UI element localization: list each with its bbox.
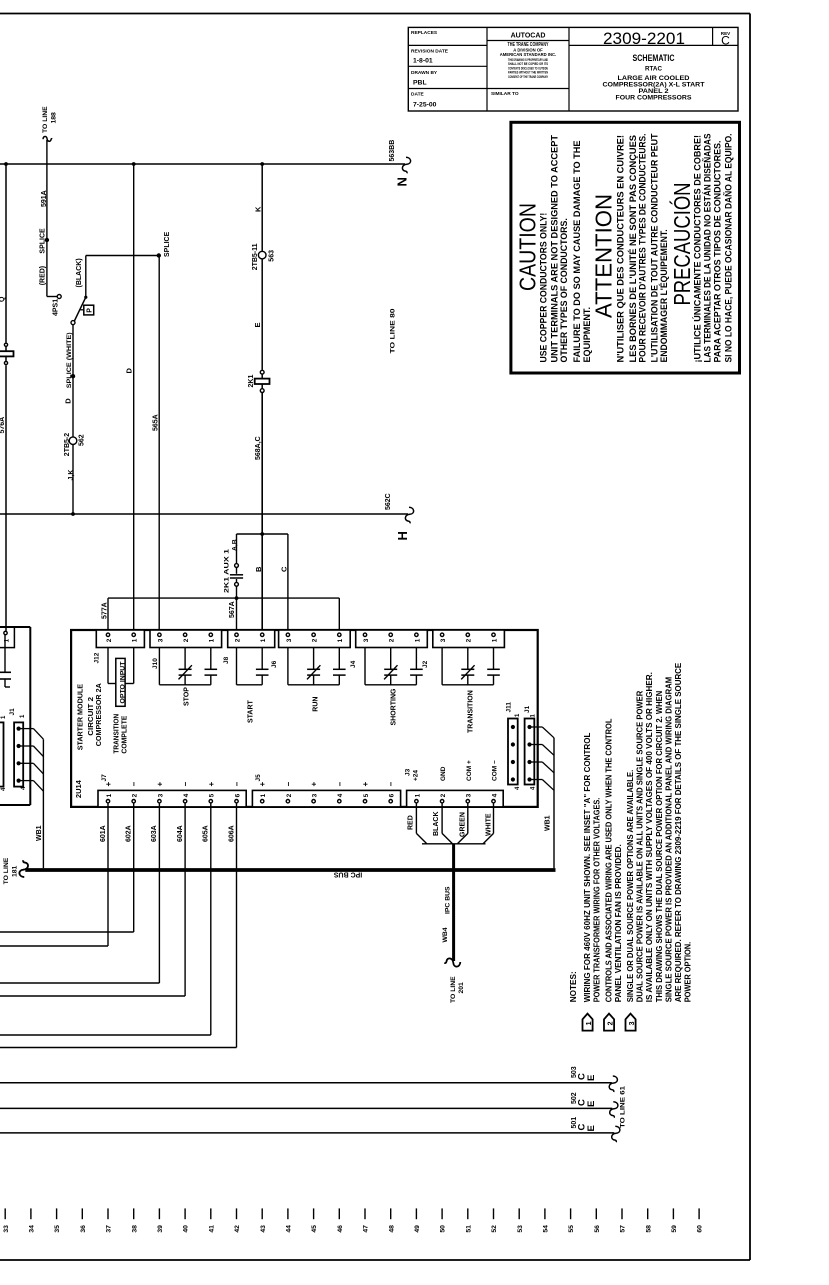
label 4 (J1 left) [21,786,27,790]
wire 568A,C / B [261,393,263,634]
svg-text:565A: 565A [153,414,160,431]
connector J11 box [508,719,518,785]
svg-text:1: 1 [491,638,498,642]
svg-text:34: 34 [29,1225,36,1233]
svg-text:3: 3 [629,1021,636,1025]
connector J1 box (right) [525,719,535,785]
wire [5,346,7,351]
coil 2K1 body [255,379,270,384]
svg-text:K: K [254,206,263,212]
svg-text:ATTENTION: ATTENTION [591,194,617,318]
wire 606A [0,803,237,1048]
IPC BUS [25,868,555,872]
svg-text:567A: 567A [229,601,236,618]
label 601A [100,825,107,842]
wire to line 188 stub [46,140,48,164]
label WB4 [442,927,449,942]
svg-text:WB1: WB1 [36,825,43,841]
svg-text:39: 39 [157,1225,164,1233]
svg-text:TO LINE: TO LINE [3,857,10,884]
svg-text:50: 50 [440,1225,447,1233]
svg-text:PARA ACEPTAR OTROS TIPOS DE CO: PARA ACEPTAR OTROS TIPOS DE CONDUCTORES. [713,141,724,363]
svg-text:RTAC: RTAC [645,66,662,73]
label 576A [0,417,6,434]
svg-text:43: 43 [260,1225,267,1233]
contact group START (J8) [237,648,269,685]
svg-text:58: 58 [645,1225,652,1233]
coil Q body [0,351,14,356]
wire E [261,259,263,370]
coil Q bottom terminal [4,361,7,364]
svg-text:CONSENT OF THE TRANE COMPANY: CONSENT OF THE TRANE COMPANY [508,74,548,79]
svg-text:−: − [181,782,190,787]
svg-text:H: H [395,531,410,540]
svg-text:562: 562 [79,434,86,446]
terminal 2TB5-2 [69,437,77,445]
capacitor in left module [0,635,11,687]
connector pins J11 J1 [511,725,532,782]
svg-text:48: 48 [388,1225,395,1233]
label 501 [571,1117,578,1129]
svg-text:E: E [253,322,262,327]
label 1 (J1 left) [20,714,26,718]
svg-text:SPLICE (WHITE): SPLICE (WHITE) [66,332,73,388]
svg-text:605A: 605A [203,825,210,842]
svg-text:B: B [254,566,263,572]
label C (501) [577,1124,588,1131]
top connector pins [106,633,499,642]
splice dot red [45,238,49,242]
svg-text:REVISION DATE: REVISION DATE [411,48,449,54]
connector J6 box [279,630,351,648]
svg-text:Q: Q [0,296,6,302]
label RUN [313,697,320,712]
node B-AUX junction [260,532,264,536]
svg-text:J3: J3 [405,768,412,776]
label 567A [229,601,236,618]
svg-text:1: 1 [260,793,267,797]
label 602A [126,825,133,842]
wire 565A [158,256,160,634]
label TO LINE 61 [620,1086,627,1128]
svg-text:3: 3 [466,793,473,797]
svg-text:601A: 601A [100,825,107,842]
svg-text:WB1: WB1 [545,815,552,831]
label J5 [255,774,262,782]
label 1 (terminal) [3,639,10,643]
svg-text:201: 201 [458,982,465,994]
svg-text:ENDOMMAGER L'ÉQUIPEMENT.: ENDOMMAGER L'ÉQUIPEMENT. [659,229,670,362]
terminal 1 circle [4,631,7,634]
svg-text:COMPRESSOR 2A: COMPRESSOR 2A [94,683,103,747]
svg-text:2TB5-2: 2TB5-2 [64,433,71,456]
wire 591A [47,164,57,297]
node top rail left [4,162,8,166]
svg-text:TO LINE: TO LINE [450,976,457,1003]
connector J4 box [356,630,428,648]
svg-text:WHITE: WHITE [486,813,493,836]
svg-text:TRANSITION: TRANSITION [468,690,475,733]
label 2TB5-11 [252,243,259,270]
svg-text:38: 38 [131,1225,138,1233]
label J,K [68,470,75,481]
wire [5,356,7,361]
svg-text:CAUTION: CAUTION [515,203,541,291]
svg-text:603A: 603A [151,825,158,842]
terminal 2TB5-11 [258,251,266,259]
svg-text:START: START [248,699,255,723]
svg-text:SHORTING: SHORTING [391,688,398,726]
svg-text:TO LINE: TO LINE [42,106,49,133]
svg-text:3: 3 [157,638,164,642]
svg-text:7-25-00: 7-25-00 [413,102,437,109]
note marker 1 [583,1014,593,1031]
label CIRCUIT 2 [86,697,95,736]
contact group SHORTING (J4) [365,648,423,685]
svg-text:WIRING FOR 460V 60HZ UNIT SHOW: WIRING FOR 460V 60HZ UNIT SHOWN. SEE INS… [582,733,592,1003]
svg-text:6: 6 [389,793,396,797]
wire left rail upper [5,164,7,343]
svg-text:4: 4 [491,793,498,797]
svg-text:51: 51 [465,1225,472,1233]
svg-text:EQUIPMENT.: EQUIPMENT. [582,307,593,363]
svg-text:GND: GND [440,766,447,781]
svg-text:60: 60 [697,1225,704,1233]
svg-text:2: 2 [286,793,293,797]
svg-text:4: 4 [183,793,190,797]
svg-text:2K1 AUX 1: 2K1 AUX 1 [224,549,231,593]
svg-text:J1: J1 [9,708,16,716]
svg-text:STOP: STOP [184,687,191,706]
label 4 (mating left) [1,787,7,791]
connector J7 box [98,790,246,807]
wire bottom rail 562C [0,513,408,515]
svg-text:NOTES:: NOTES: [568,971,578,1002]
note marker 2 [604,1014,614,1031]
svg-text:44: 44 [286,1225,293,1233]
label B [254,566,263,572]
label 563 [269,250,276,262]
wire J12 legs [108,648,134,684]
connector pins J1 left + harness [17,727,44,792]
svg-text:1: 1 [586,1021,593,1025]
svg-text:J,K: J,K [68,470,75,481]
label H [395,531,410,540]
svg-text:(RED): (RED) [40,266,47,285]
label IPC BUS (on bus) [333,871,362,878]
note marker 3 [626,1014,636,1031]
label J3 [405,768,412,776]
svg-text:A,B: A,B [232,539,239,551]
svg-text:606A: 606A [228,825,235,842]
connector J1 box (left) [14,722,23,786]
svg-text:POWER TRANSFORMER WIRING FOR O: POWER TRANSFORMER WIRING FOR OTHER VOLTA… [591,798,601,1003]
wire 601A [0,803,108,946]
svg-text:TO LINE 61: TO LINE 61 [620,1086,627,1128]
svg-text:+: + [155,782,164,787]
contact group STOP (J10) [159,648,217,685]
wire WB1 left [42,739,44,868]
svg-text:1: 1 [414,638,421,642]
label COMPRESSOR 2A [94,683,103,747]
label 201 [458,982,465,994]
svg-text:37: 37 [106,1225,113,1233]
svg-text:2: 2 [132,793,139,797]
svg-text:DRAWN BY: DRAWN BY [411,70,438,76]
label WB1 left [36,825,43,841]
svg-text:2: 2 [440,793,447,797]
label TO LINE (201) [450,976,457,1003]
label TRANSITION [468,690,475,733]
svg-text:4PS1: 4PS1 [53,299,60,316]
svg-text:POUR RECEVOIR D'AUTRES TYPES D: POUR RECEVOIR D'AUTRES TYPES DE CONDUCTE… [638,134,649,363]
coil 2K1 top terminal [260,370,264,374]
label A,B [232,539,239,551]
label 562 [79,434,86,446]
svg-text:577A: 577A [102,602,109,619]
svg-text:WB4: WB4 [442,927,449,942]
label 565A [153,414,160,431]
svg-text:USE COPPER CONDUCTORS ONLY!: USE COPPER CONDUCTORS ONLY! [539,213,550,363]
svg-text:COMPLETE: COMPLETE [120,716,129,754]
svg-text:C: C [721,34,730,48]
svg-text:(BLACK): (BLACK) [76,258,83,287]
svg-text:D: D [64,398,73,404]
svg-text:40: 40 [183,1225,190,1233]
label 562C [385,493,392,510]
label 563BB [389,140,396,162]
svg-text:SCHEMATIC: SCHEMATIC [633,53,675,64]
svg-text:J6: J6 [271,660,278,668]
svg-text:5: 5 [363,793,370,797]
svg-text:3: 3 [157,793,164,797]
connector J2 box [433,630,505,648]
svg-text:PANEL VENTILATION FAN IS PROVI: PANEL VENTILATION FAN IS PROVIDED. [613,844,623,1002]
svg-text:2U14: 2U14 [74,779,83,798]
contact group TRANSITION (J2) [442,648,500,685]
label J4 [350,660,357,668]
label 4 (J1 right) [531,786,537,790]
svg-text:J12: J12 [94,652,101,663]
svg-text:1: 1 [414,793,421,797]
svg-text:+24: +24 [413,770,420,781]
label OPTO INPUT [119,661,126,704]
svg-text:2309-2201: 2309-2201 [603,30,685,48]
svg-text:−: − [335,782,344,787]
label SPLICE (WHITE) [66,332,73,388]
coil 2K1 bottom terminal [260,384,264,393]
svg-text:COM −: COM − [492,760,499,781]
label 2U14 [74,779,83,798]
label WB1 right [545,815,552,831]
svg-text:PBL: PBL [413,80,427,87]
label 603A [151,825,158,842]
svg-text:SPLICE: SPLICE [164,231,171,257]
svg-text:SPLICE: SPLICE [40,228,47,254]
connector J5 box [252,790,400,807]
node top rail D [132,162,136,166]
notes text [582,662,693,1002]
label +24 [413,770,420,781]
svg-text:2K1: 2K1 [248,375,255,388]
svg-text:49: 49 [414,1225,421,1233]
label 4PS1 [53,299,60,316]
label STARTER MODULE [76,684,85,750]
svg-text:4: 4 [337,793,344,797]
svg-text:1: 1 [337,638,344,642]
wire 602A [0,803,134,932]
svg-text:GREEN: GREEN [460,812,467,837]
svg-text:47: 47 [363,1225,370,1233]
break symbol 503 [609,1076,617,1092]
svg-text:BLACK: BLACK [433,812,440,837]
svg-text:1: 1 [260,638,267,642]
actuator P box [80,305,94,315]
label 2K1 AUX 1 [224,549,231,593]
node white-562C junction [71,512,75,516]
wire 577A [108,598,339,633]
svg-text:THIS DRAWING SHOWS THE DUAL SO: THIS DRAWING SHOWS THE DUAL SOURCE POWER… [654,691,664,1003]
connector J10 box [150,630,222,648]
svg-text:33: 33 [3,1225,10,1233]
svg-text:3: 3 [363,638,370,642]
wire WB1 right [553,738,555,869]
label COM + [466,760,473,781]
svg-text:J5: J5 [255,774,262,782]
svg-text:RED: RED [408,815,415,830]
svg-text:N'UTILISER QUE DES CONDUCTEURS: N'UTILISER QUE DES CONDUCTEURS EN CUIVRE… [615,135,626,363]
splice dot black [157,253,161,257]
wire 503 [0,1082,612,1084]
svg-text:N: N [395,177,410,186]
svg-text:P: P [87,308,94,313]
svg-text:568A,C: 568A,C [255,436,262,460]
splice dot white [71,374,75,378]
svg-text:SINGLE OR DUAL SOURCE POWER OP: SINGLE OR DUAL SOURCE POWER OPTIONS ARE … [625,770,635,1003]
mating connector (left edge) [0,722,4,786]
svg-text:J8: J8 [223,656,230,664]
contact group RUN (J6) [288,648,346,685]
svg-text:STARTER MODULE: STARTER MODULE [76,684,85,750]
label IPC BUS (WB4) [445,886,452,914]
label TRANSITION [111,714,120,754]
break symbol line188 [43,137,52,142]
label J8 [223,656,230,664]
svg-text:J2: J2 [422,660,429,668]
wire top rail 563BB [0,163,405,165]
svg-text:2: 2 [389,638,396,642]
wire D line38 [133,164,135,633]
svg-text:45: 45 [311,1225,318,1233]
svg-text:1-8-01: 1-8-01 [413,58,433,65]
wire 604A [0,803,185,996]
svg-text:IPC BUS: IPC BUS [333,871,362,878]
label E (501) [586,1125,597,1131]
node 567A-577A junction [235,596,239,600]
svg-text:1: 1 [132,638,139,642]
label 502 [571,1092,578,1104]
label 568A,C [255,436,262,460]
svg-text:TO LINE 80: TO LINE 80 [390,308,397,353]
label TO LINE 80 [390,308,397,353]
svg-text:IPC BUS: IPC BUS [445,886,452,914]
svg-text:35: 35 [54,1225,61,1233]
label C [280,566,289,572]
svg-text:COM +: COM + [466,760,473,781]
label 604A [177,825,184,842]
svg-text:CONTROLS AND ASSOCIATED WIRING: CONTROLS AND ASSOCIATED WIRING ARE USED … [604,719,614,1003]
svg-text:OTHER TYPES OF CONDUCTORS.: OTHER TYPES OF CONDUCTORS. [559,218,570,362]
svg-text:E: E [586,1101,597,1107]
pressure switch 4PS1 arm [74,296,87,321]
label NOTES: [568,971,578,1002]
break symbol 563BB [402,157,410,173]
opto input box [116,658,125,706]
wire [72,445,74,514]
svg-text:563BB: 563BB [389,140,396,162]
svg-text:46: 46 [337,1225,344,1233]
label 188 [51,112,58,124]
svg-text:J11: J11 [506,702,513,713]
title block [408,27,738,111]
label 606A [228,825,235,842]
svg-text:D: D [125,368,134,374]
svg-text:SI NO LO HACE, PUEDE OCASIONAR: SI NO LO HACE, PUEDE OCASIONAR DAÑO AL E… [724,134,735,363]
line number ticks 33-60 [3,1208,704,1232]
svg-text:52: 52 [491,1225,498,1233]
label J1 (left) [9,708,16,716]
svg-text:+: + [207,782,216,787]
svg-text:REPLACES: REPLACES [411,30,438,36]
break symbol WB4 [444,958,460,966]
svg-text:562C: 562C [385,493,392,510]
label D (white wire) [64,398,73,404]
label GND [440,766,447,781]
svg-text:J4: J4 [350,660,357,668]
svg-text:2: 2 [106,638,113,642]
svg-text:OPTO INPUT: OPTO INPUT [119,661,126,704]
wire aux link [237,533,288,535]
svg-text:3: 3 [440,638,447,642]
label GREEN [460,812,467,837]
svg-text:55: 55 [568,1225,575,1233]
svg-text:DATE: DATE [411,92,425,98]
pressure switch 4PS1 moving contact [71,321,75,325]
svg-text:DUAL SOURCE POWER IS AVAILABLE: DUAL SOURCE POWER IS AVAILABLE ON ALL UN… [635,691,645,1003]
connector J8 box [228,630,275,648]
svg-text:2: 2 [234,638,241,642]
label 1 (J1 right) [531,714,537,718]
connector J12 box [96,630,144,648]
svg-text:5: 5 [209,793,216,797]
svg-text:J1: J1 [524,705,531,713]
label 2K1 [248,375,255,388]
wire 605A [0,803,211,1035]
svg-text:POWER OPTION.: POWER OPTION. [683,942,693,1003]
svg-text:C: C [280,566,289,572]
label N [395,177,410,186]
label 503 [571,1066,578,1078]
label (RED) [40,266,47,285]
svg-text:563: 563 [269,250,276,262]
label E (503) [586,1075,597,1081]
label START [248,699,255,723]
label 577A [102,602,109,619]
svg-text:−: − [387,782,396,787]
label SPLICE (black) [164,231,171,257]
svg-text:1: 1 [106,793,113,797]
svg-text:2: 2 [607,1021,614,1025]
